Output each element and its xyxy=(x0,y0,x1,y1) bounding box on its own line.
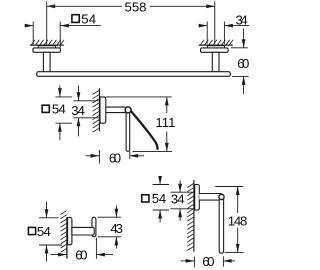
square symbol mid 54 xyxy=(42,105,49,112)
dim 54 top extensions xyxy=(32,22,34,45)
dim 54 hook arrow tails xyxy=(46,202,48,218)
dim 60 mid xyxy=(86,150,145,164)
ring wall hatch xyxy=(187,184,193,251)
arrowhead 43 bottom xyxy=(115,237,119,246)
dim 34 top extensions xyxy=(206,22,208,44)
dim 54 mid arrow tails xyxy=(59,85,61,96)
dim 34 ring arrow tails xyxy=(179,181,181,193)
arrowhead 34 mid bottom xyxy=(77,118,81,127)
arrowhead 54 ring bottom xyxy=(158,210,162,219)
dim 60 hook xyxy=(51,238,114,259)
arrowhead 60 mid right xyxy=(130,154,139,158)
svg-text:43: 43 xyxy=(110,221,123,236)
arrowhead 558 right xyxy=(206,4,215,8)
dim 43 arrow tails xyxy=(115,206,117,218)
arrowhead 34 top left xyxy=(199,24,208,28)
dim 558 line xyxy=(47,5,122,7)
svg-text:34: 34 xyxy=(171,192,185,207)
svg-text:54: 54 xyxy=(152,191,167,206)
dim 558 extension left xyxy=(46,2,48,45)
arrowhead 34 mid top xyxy=(77,92,81,101)
square symbol ring 54 xyxy=(142,195,149,202)
dim 60 ring xyxy=(181,256,235,267)
arrowhead 54 top right (outside) xyxy=(60,24,69,28)
ring plate xyxy=(195,185,200,211)
arrowhead 60 ring right xyxy=(223,259,232,263)
paper holder wall hatch xyxy=(93,91,99,133)
svg-text:558: 558 xyxy=(125,0,147,15)
svg-text:54: 54 xyxy=(37,224,51,239)
towel bar: left neck xyxy=(38,46,55,48)
arrowhead 111 top xyxy=(165,97,169,106)
dim 54 hook extensions xyxy=(39,202,62,262)
dim 34 mid extensions xyxy=(74,100,99,102)
arrowhead 34 ring top xyxy=(178,184,182,193)
towel bar: right neck xyxy=(207,46,224,48)
ring corner circle xyxy=(219,194,224,199)
svg-text:148: 148 xyxy=(228,213,248,228)
arrowhead 43 top xyxy=(115,209,119,218)
dim 111 line xyxy=(133,97,173,151)
square symbol top 54 xyxy=(72,15,79,23)
dim 60 ring ticks xyxy=(193,257,195,268)
svg-text:60: 60 xyxy=(237,56,249,71)
towel bar: left stem xyxy=(43,52,50,72)
dim 148 xyxy=(215,187,243,253)
paper holder pivot circle xyxy=(125,107,131,113)
dim 111 top extension (plate top extended) xyxy=(106,96,172,98)
hook wall line xyxy=(66,217,68,258)
paper holder arm xyxy=(106,106,126,108)
dim 34 mid arrow tails xyxy=(78,85,80,100)
arrowhead 148 top xyxy=(236,187,240,196)
arrowhead 34 ring bottom xyxy=(178,209,182,218)
towel bar: left wall hatch xyxy=(31,40,64,45)
hook wall hatch xyxy=(61,211,67,253)
arrowhead 60 mid left xyxy=(91,154,100,158)
ring arm and front bar outline xyxy=(199,194,223,254)
towel bar: left wall line xyxy=(30,44,64,46)
svg-text:60: 60 xyxy=(202,254,214,269)
dim 54 mid extensions xyxy=(56,85,99,140)
dim 60 top-right: arrow tails xyxy=(243,29,245,48)
paper holder plate xyxy=(100,97,106,123)
arrowhead 54 mid top xyxy=(58,88,62,97)
arrowhead 60 hook left xyxy=(58,253,67,257)
dim 60 mid left tick xyxy=(98,150,100,164)
arrowhead 148 bottom xyxy=(236,244,240,253)
arrowhead 111 bottom xyxy=(165,143,169,152)
paper holder wall line xyxy=(98,88,100,131)
dim 60 hook right tick xyxy=(95,238,97,259)
square symbol hook 54 xyxy=(28,227,35,234)
arrowhead 54 mid bottom xyxy=(58,123,62,132)
svg-text:34: 34 xyxy=(236,13,248,28)
dim 43 extensions xyxy=(98,206,122,249)
arrowhead 54 hook bottom xyxy=(45,245,49,254)
svg-text:34: 34 xyxy=(71,103,85,118)
towel bar: right plate xyxy=(201,48,229,52)
hook stem xyxy=(72,227,94,235)
towel bar: rail xyxy=(37,72,231,77)
towel bar: right wall line xyxy=(199,44,233,46)
towel bar: right stem xyxy=(212,52,219,72)
arrowhead 54 hook top xyxy=(45,209,49,218)
arrowhead 60 top (down) xyxy=(242,39,246,48)
dim 54 ring arrow tails xyxy=(159,181,161,185)
arrowhead 60 bottom (up) xyxy=(242,76,246,85)
hook vertical bar xyxy=(92,217,96,237)
dim 54 ring extensions xyxy=(153,181,194,223)
arrowhead 60 hook right xyxy=(96,253,105,257)
dim 60 mid right tick xyxy=(129,151,131,159)
towel bar: right wall hatch xyxy=(200,40,233,45)
svg-text:111: 111 xyxy=(155,115,175,130)
arrowhead 34 top right xyxy=(224,24,233,28)
towel bar: left plate xyxy=(33,48,61,52)
ring wall line xyxy=(193,180,195,252)
dim 34 ring extensions xyxy=(170,191,193,193)
dim 111 bottom extension xyxy=(133,150,173,152)
arrowhead 60 ring left xyxy=(186,259,195,263)
arrowhead 558 left xyxy=(47,4,56,8)
hook plate xyxy=(68,218,72,245)
arrowhead 54 ring top xyxy=(158,176,162,185)
svg-text:60: 60 xyxy=(75,248,87,263)
dim 34 top: tails xyxy=(200,25,208,27)
svg-text:54: 54 xyxy=(52,102,66,117)
arrowhead 54 top left (outside) xyxy=(25,24,34,28)
paper holder roll bar xyxy=(126,111,130,151)
dim 54 top: line tail xyxy=(26,25,33,27)
dim 558 extension right xyxy=(214,2,216,44)
svg-text:60: 60 xyxy=(109,150,121,165)
paper holder flap xyxy=(130,110,157,149)
dim 60 top-right extensions xyxy=(231,47,248,49)
svg-text:54: 54 xyxy=(81,12,96,27)
